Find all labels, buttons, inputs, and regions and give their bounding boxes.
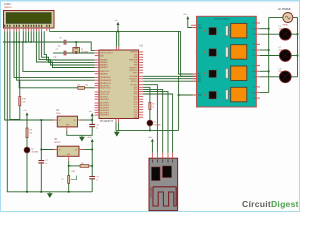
- svg-text:22p: 22p: [54, 57, 57, 59]
- resistor R1: [78, 84, 89, 89]
- U2 pin labels: [100, 50, 138, 119]
- crystal X1: [73, 42, 88, 54]
- AC POWER source: [278, 8, 293, 26]
- relay channel 2 optocoupler: [209, 49, 216, 56]
- relay module RL1 4Ch Relay Board: [197, 16, 257, 107]
- relay 4: [231, 87, 247, 102]
- wire U3 output to +5V node: [81, 119, 92, 121]
- wire lamp L3 to AC rail: [291, 76, 297, 78]
- svg-text:RA1/AN1: RA1/AN1: [100, 61, 108, 64]
- svg-text:4Ch Relay Module: 4Ch Relay Module: [214, 18, 230, 20]
- pot RV2: [62, 171, 77, 183]
- wire LCD RS to U2: [14, 31, 95, 77]
- wire U2 to ESP pin3: [143, 89, 163, 152]
- svg-text:RA5/AN4: RA5/AN4: [100, 73, 108, 76]
- svg-text:C1: C1: [56, 49, 58, 51]
- lamp L3: [279, 68, 292, 82]
- diode D2 LED: [24, 147, 39, 153]
- relay 1: [231, 23, 247, 38]
- relay channel 2 transistor: [225, 47, 228, 57]
- svg-text:10k: 10k: [85, 84, 88, 86]
- svg-text:+5v: +5v: [89, 111, 92, 113]
- ground U2: [116, 130, 118, 131]
- power +5V near U3: [89, 111, 94, 120]
- wire LCD D3 to U2: [23, 42, 95, 71]
- svg-text:LM016L: LM016L: [4, 7, 13, 9]
- ESP8266 top pins: [152, 153, 173, 163]
- relay channel 4 optocoupler: [209, 92, 216, 99]
- svg-text:RE1/AN6/WR: RE1/AN6/WR: [100, 79, 112, 82]
- relay channel 2 LED: [204, 51, 205, 52]
- wire bus drop to relay IN2: [181, 31, 197, 76]
- wire relay NC1 to lamp L1: [260, 33, 279, 35]
- svg-text:LED-RED: LED-RED: [154, 124, 162, 126]
- wire LCD E to U2 MCLR via R1: [19, 31, 78, 88]
- wire LCD D4 to U2: [36, 31, 94, 67]
- power +3.3V ESP: [148, 137, 154, 153]
- power +12V relay board: [183, 14, 192, 27]
- ESP8266 chip 2: [163, 166, 172, 178]
- wire U3 ground net: [67, 127, 92, 136]
- wire ground line U2: [115, 122, 117, 130]
- U2 left pins: [95, 50, 99, 115]
- power +3.3V near U5: [87, 137, 94, 150]
- pot RV1: [19, 97, 26, 106]
- LCD pins 1-16: [4, 25, 50, 32]
- svg-text:C3: C3: [59, 38, 61, 40]
- capacitor C2: [38, 150, 47, 166]
- svg-text:AC POWER: AC POWER: [278, 8, 291, 11]
- svg-text:PSP7: PSP7: [133, 73, 138, 75]
- wire LCD D7 to U2: [44, 31, 94, 60]
- resistor R4: [69, 163, 93, 168]
- relay channel 3 optocoupler: [209, 70, 216, 77]
- svg-text:D1: D1: [154, 121, 156, 123]
- relay board VCC GND pins: [191, 25, 197, 27]
- power +5V: [114, 20, 119, 32]
- wire U5 gnd to divider: [68, 161, 70, 176]
- CircuitDigest logo: [242, 199, 299, 209]
- svg-text:1u: 1u: [96, 128, 98, 130]
- svg-text:R2: R2: [152, 103, 154, 105]
- svg-text:LCD1: LCD1: [4, 2, 11, 6]
- svg-text:C2: C2: [45, 160, 47, 162]
- wire LCD VDD to ground bus: [6, 31, 8, 192]
- wire bus to U2 VDD pins: [115, 31, 117, 46]
- wire lower LCD bus: [3, 41, 64, 43]
- svg-text:R4: R4: [81, 163, 83, 165]
- relay 4 output pins NO COM NC: [252, 87, 260, 100]
- wire +3.3V rail down: [91, 150, 93, 177]
- svg-text:U2: U2: [140, 44, 144, 48]
- svg-text:RV1: RV1: [23, 99, 27, 101]
- U2 right pins: [139, 52, 144, 117]
- wire C9 to ground bus: [91, 179, 93, 192]
- wire U2 to relay IN2b: [143, 75, 196, 77]
- svg-text:R9: R9: [29, 130, 31, 132]
- relay channel 1 transistor: [225, 26, 228, 36]
- svg-text:PIC16F877A: PIC16F877A: [100, 120, 114, 123]
- wire LCD RW to U2 (via RV1 top node): [17, 31, 95, 80]
- svg-text:220V: 220V: [279, 71, 283, 73]
- capacitor C3: [58, 38, 95, 51]
- wire LCD D6 to U2: [42, 31, 95, 62]
- wire relay COM rails: [260, 28, 269, 30]
- svg-text:10k: 10k: [23, 102, 26, 104]
- svg-text:+5v: +5v: [23, 110, 26, 112]
- relay 2: [231, 45, 247, 60]
- relay board IN pins: [193, 74, 203, 97]
- wire AC source leads: [269, 17, 283, 19]
- wire LCD D5 to U2: [39, 31, 95, 65]
- lamp L2: [279, 47, 292, 61]
- wire lamp L2 to AC rail: [291, 55, 297, 57]
- ESP8266 chip 1: [152, 167, 161, 181]
- wire data stubs to bus: [22, 31, 24, 42]
- regulator U5 LM1117: [54, 139, 84, 161]
- wire ground riser to relay GND: [178, 76, 180, 130]
- wire AC left rail: [268, 18, 270, 93]
- wire U5 output to +3.3V node: [84, 149, 93, 151]
- op-amp U2 microcontroller PIC16F877A: [99, 44, 143, 123]
- svg-text:220V: 220V: [279, 50, 283, 52]
- wire U2 to relay IN3: [143, 78, 196, 80]
- wire LCD VEE to RV1 bottom: [10, 31, 20, 119]
- svg-text:IN4: IN4: [198, 81, 201, 83]
- resistor R9: [26, 128, 32, 138]
- wire LCD VSS to U3 input: [5, 31, 54, 120]
- svg-text:1k: 1k: [152, 106, 154, 108]
- ground bus: [7, 191, 92, 193]
- node +5V bus: [49, 30, 180, 32]
- wire relay NC3 to lamp L3: [260, 76, 279, 78]
- svg-text:1u: 1u: [45, 163, 47, 165]
- power +5V indicator: [23, 110, 28, 128]
- svg-text:CírcuitDigest: CírcuitDigest: [242, 199, 299, 209]
- svg-text:RV2: RV2: [72, 171, 76, 173]
- svg-text:22p: 22p: [58, 45, 61, 47]
- svg-text:220V: 220V: [279, 28, 283, 30]
- relay channel 3 LED: [204, 73, 205, 74]
- svg-text:+3.3v: +3.3v: [87, 137, 92, 139]
- svg-text:1u: 1u: [96, 180, 98, 182]
- svg-text:D2: D2: [31, 148, 33, 150]
- svg-text:RC6/TX: RC6/TX: [131, 81, 138, 83]
- diode D1 LED: [147, 120, 162, 126]
- wire U2 to ESP pin4: [143, 92, 168, 153]
- wire U3 input node to U5 input: [41, 120, 54, 150]
- relay channel 1 optocoupler: [209, 28, 216, 35]
- svg-text:+5v: +5v: [114, 20, 117, 22]
- regulator U3 7805: [54, 110, 81, 131]
- svg-text:+12v: +12v: [183, 14, 187, 16]
- relay channel 4 transistor: [225, 90, 228, 100]
- svg-text:LED-RED: LED-RED: [31, 151, 39, 153]
- svg-text:C9: C9: [96, 177, 98, 179]
- module ESP8266: [149, 158, 178, 210]
- ESP8266 antenna: [153, 187, 176, 206]
- U2 top pins: [116, 47, 118, 50]
- svg-text:RE0/AN5/RD: RE0/AN5/RD: [100, 76, 111, 79]
- svg-text:LM1117: LM1117: [54, 142, 61, 144]
- relay channel 1 LED: [204, 30, 205, 31]
- relay 3 output pins NO COM NC: [252, 65, 260, 78]
- svg-text:C6: C6: [96, 125, 98, 127]
- svg-text:ESP8266: ESP8266: [149, 186, 153, 198]
- relay channel 4 LED: [204, 94, 205, 95]
- ground U3: [81, 135, 83, 136]
- lamp L1: [279, 26, 292, 40]
- capacitor C6: [89, 120, 98, 130]
- wire U2 to R2/D1: [143, 87, 150, 102]
- svg-text:RD6/PSP6: RD6/PSP6: [100, 115, 109, 117]
- svg-text:RA3/AN3: RA3/AN3: [100, 66, 108, 69]
- svg-text:RC0/T1OSO: RC0/T1OSO: [100, 88, 111, 90]
- svg-text:10k: 10k: [29, 133, 32, 135]
- U2 bottom pins: [116, 119, 119, 123]
- wire bus drop to relay IN1: [179, 31, 197, 74]
- wire AC right rail: [297, 18, 299, 77]
- wire relay NC2 to lamp L2: [260, 55, 279, 57]
- capacitor C9: [89, 177, 98, 182]
- svg-text:X1: X1: [81, 49, 83, 51]
- svg-text:VSINE: VSINE: [283, 25, 289, 27]
- svg-text:RD0/PSP0: RD0/PSP0: [100, 99, 109, 101]
- capacitor C1: [53, 49, 95, 58]
- relay 2 output pins NO COM NC: [252, 44, 260, 57]
- svg-text:+3.3v: +3.3v: [148, 137, 153, 139]
- wire lamp L1 to AC rail: [291, 33, 297, 35]
- relay 1 output pins NO COM NC: [252, 23, 260, 36]
- wire U2 to relay IN4: [143, 80, 196, 82]
- ground bus symbol: [49, 192, 51, 193]
- wire U2 to ESP pin5: [143, 94, 172, 153]
- relay channel 3 transistor: [225, 68, 228, 78]
- svg-text:RA6: RA6: [100, 54, 104, 57]
- wire U2 to ESP pin2: [143, 85, 157, 153]
- resistor R2: [149, 102, 155, 109]
- relay 3: [231, 66, 247, 81]
- LCD LCD1: [4, 2, 55, 28]
- svg-text:1k: 1k: [62, 179, 64, 181]
